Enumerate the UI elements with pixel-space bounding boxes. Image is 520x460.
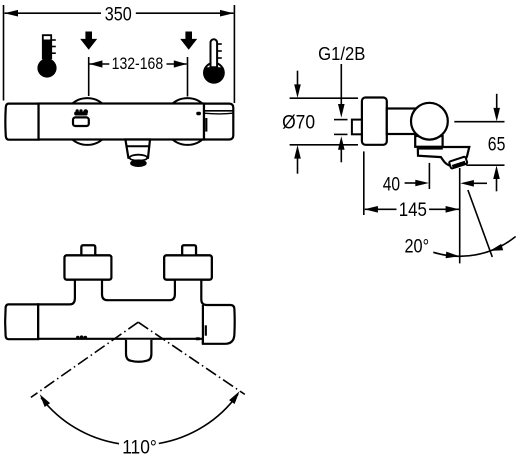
110 arc arrowhead left [40, 394, 50, 407]
20 degree slanted line [468, 190, 492, 257]
G1/2B tick bottom [334, 133, 348, 135]
dimension 350 extension line left [3, 5, 5, 101]
escutcheon circle left [64, 98, 111, 145]
thermometer hot icon [37, 35, 56, 77]
dimension 145 line + arrows [365, 208, 397, 210]
inlet arrow down right [180, 32, 197, 50]
dimension 350 arrowhead right [220, 10, 234, 17]
dimension 40 arrow right [405, 182, 417, 184]
dia70 bottom reference line [290, 144, 358, 146]
temperature handle left (front) [5, 104, 38, 140]
valve body (side) [387, 109, 430, 135]
top view faucet outline (body + unions + blocks) [38, 245, 235, 343]
flow handle dot [196, 112, 201, 115]
svg-text:Ø70: Ø70 [282, 113, 315, 134]
svg-text:132-168: 132-168 [112, 55, 164, 73]
flow handle inner lines [204, 110, 233, 112]
union block left [65, 255, 112, 279]
dimension 132-168 line + arrows [90, 63, 110, 65]
wall connector nub G1/2B [352, 120, 363, 135]
union square left [81, 245, 95, 256]
dimension 65 bottom reference line [466, 164, 504, 166]
flow handle right (front) [204, 104, 233, 140]
20 degree arc arrowhead at slanted line [490, 244, 503, 251]
svg-text:350: 350 [105, 4, 132, 25]
svg-text:20°: 20° [405, 237, 430, 258]
safety logo on body (front) [73, 109, 89, 126]
temperature handle left (top view) [5, 304, 38, 339]
dimension 40 extension line [428, 163, 430, 189]
escutcheon flange (side) [362, 98, 387, 145]
20 degree arc [433, 237, 515, 257]
dimension 65 top reference line [454, 121, 504, 123]
dimension 40 arrow left [460, 180, 474, 187]
dia70 top reference line [290, 97, 358, 99]
dimension 145 extension line [363, 151, 365, 215]
20 degree arc arrowhead at vertical line [446, 252, 460, 259]
flow handle divider (top view) [202, 305, 204, 344]
110 arc arrowhead right [229, 391, 239, 404]
dimension 65 arrow down [496, 94, 498, 111]
svg-text:110°: 110° [122, 437, 157, 459]
aerator outlet (tilted) [449, 156, 468, 168]
ball joint [411, 103, 448, 140]
union square right [182, 245, 196, 256]
svg-text:G1/2B: G1/2B [318, 44, 365, 64]
spout (top view) [126, 340, 151, 362]
110 degree arc right part [159, 394, 238, 443]
dimension 132-168 extension line right [187, 57, 189, 97]
svg-text:65: 65 [488, 135, 506, 156]
dimension 350 line [5, 12, 102, 14]
inlet arrow down left [80, 32, 97, 50]
spout (side view) [418, 147, 470, 166]
dimension 65 arrow up [493, 166, 500, 180]
dimension 350 arrowhead left [4, 10, 18, 17]
safety logo (top view) [76, 335, 87, 339]
flow handle dot (top view) [195, 337, 200, 340]
ball support [415, 136, 442, 147]
junction band [418, 146, 443, 150]
G1/2B arrow up [338, 136, 345, 150]
svg-text:40: 40 [383, 174, 400, 195]
escutcheon circle right [164, 98, 211, 145]
swivel dash-dot line left [31, 322, 138, 397]
dia70 arrow down [297, 71, 299, 88]
thermometer cold icon [203, 39, 225, 82]
swivel dash-dot line right [138, 322, 245, 394]
dia70 arrow up [294, 145, 301, 159]
dimension 350 extension line right [233, 5, 235, 103]
union block right [164, 255, 212, 279]
faucet front body [39, 104, 205, 140]
spout axis line [459, 168, 461, 263]
svg-text:145: 145 [399, 200, 427, 221]
spout (front view) [125, 140, 150, 168]
G1/2B tick top [334, 119, 348, 121]
G1/2B leader arrow down [340, 64, 342, 106]
110 degree arc left part [41, 398, 119, 444]
flow handle tick (top view) [205, 325, 207, 335]
dimension 132-168 extension line left [88, 57, 90, 96]
